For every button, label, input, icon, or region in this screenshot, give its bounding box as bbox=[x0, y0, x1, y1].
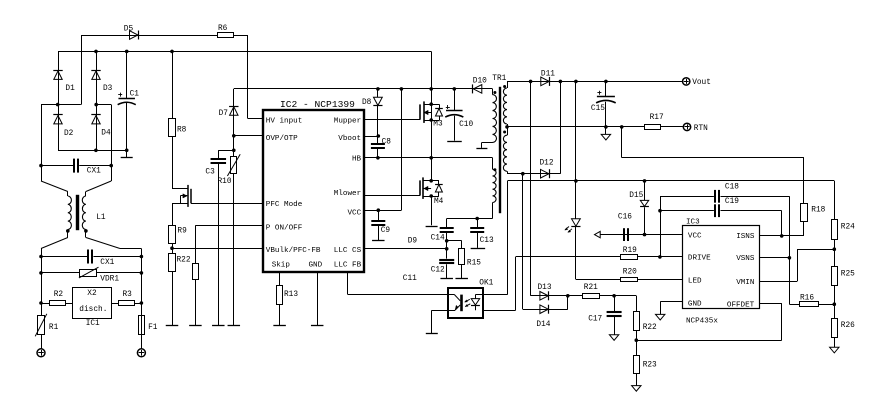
svg-text:disch.: disch. bbox=[79, 306, 107, 314]
svg-text:CX1: CX1 bbox=[87, 167, 101, 175]
svg-text:HV input: HV input bbox=[266, 118, 302, 126]
svg-text:R1: R1 bbox=[49, 324, 59, 332]
svg-text:IC3: IC3 bbox=[686, 218, 700, 226]
svg-text:C10: C10 bbox=[459, 121, 473, 129]
svg-text:R17: R17 bbox=[650, 114, 664, 122]
svg-text:M3: M3 bbox=[433, 121, 443, 129]
svg-text:R9: R9 bbox=[177, 227, 187, 235]
svg-text:C17: C17 bbox=[588, 315, 602, 323]
svg-text:R6: R6 bbox=[218, 25, 228, 33]
svg-text:C14: C14 bbox=[431, 235, 445, 243]
svg-text:R23: R23 bbox=[643, 362, 657, 370]
svg-text:R20: R20 bbox=[623, 269, 637, 277]
svg-text:GND: GND bbox=[309, 261, 323, 269]
svg-text:D8: D8 bbox=[362, 99, 372, 107]
svg-text:D5: D5 bbox=[124, 26, 134, 34]
svg-text:VCC: VCC bbox=[688, 232, 702, 240]
svg-text:R10: R10 bbox=[218, 178, 232, 186]
svg-text:D15: D15 bbox=[629, 192, 643, 200]
svg-text:R22: R22 bbox=[177, 257, 191, 265]
svg-text:R16: R16 bbox=[800, 294, 814, 302]
svg-text:C15: C15 bbox=[591, 105, 605, 113]
svg-text:C16: C16 bbox=[618, 213, 632, 221]
svg-text:OVP/OTP: OVP/OTP bbox=[266, 135, 298, 143]
svg-text:LLC FB: LLC FB bbox=[334, 261, 362, 269]
svg-text:M4: M4 bbox=[434, 198, 444, 206]
svg-text:R24: R24 bbox=[841, 223, 855, 231]
svg-text:DRIVE: DRIVE bbox=[688, 255, 711, 263]
svg-text:D10: D10 bbox=[473, 78, 487, 86]
svg-text:CX1: CX1 bbox=[100, 259, 114, 267]
svg-text:C1: C1 bbox=[130, 90, 140, 98]
svg-text:Vboot: Vboot bbox=[338, 135, 361, 143]
svg-text:LLC CS: LLC CS bbox=[334, 247, 362, 255]
svg-text:VSNS: VSNS bbox=[736, 255, 755, 263]
svg-text:C8: C8 bbox=[382, 138, 392, 146]
svg-text:NCP435x: NCP435x bbox=[686, 318, 718, 326]
svg-text:PFC Mode: PFC Mode bbox=[266, 201, 303, 209]
svg-text:IC1: IC1 bbox=[86, 320, 100, 328]
svg-text:R2: R2 bbox=[54, 291, 64, 299]
svg-text:R26: R26 bbox=[841, 322, 855, 330]
svg-text:X2: X2 bbox=[87, 290, 97, 298]
svg-text:IC2 - NCP1399: IC2 - NCP1399 bbox=[280, 99, 355, 110]
svg-text:C11: C11 bbox=[403, 275, 417, 283]
svg-text:R22: R22 bbox=[643, 324, 657, 332]
svg-text:C12: C12 bbox=[431, 266, 445, 274]
svg-text:OK1: OK1 bbox=[479, 279, 493, 287]
svg-text:C3: C3 bbox=[205, 169, 215, 177]
svg-text:D11: D11 bbox=[541, 70, 555, 78]
svg-text:R13: R13 bbox=[284, 291, 298, 299]
svg-text:RTN: RTN bbox=[694, 125, 708, 133]
svg-text:ISNS: ISNS bbox=[736, 233, 755, 241]
svg-text:VBulk/PFC-FB: VBulk/PFC-FB bbox=[266, 247, 321, 255]
svg-text:C13: C13 bbox=[480, 237, 494, 245]
svg-text:VMIN: VMIN bbox=[736, 279, 754, 287]
svg-text:D9: D9 bbox=[408, 238, 418, 246]
svg-text:D14: D14 bbox=[536, 321, 550, 329]
svg-text:R8: R8 bbox=[177, 126, 187, 134]
svg-text:R21: R21 bbox=[584, 284, 598, 292]
svg-text:P ON/OFF: P ON/OFF bbox=[266, 224, 303, 232]
svg-text:D2: D2 bbox=[64, 130, 74, 138]
svg-text:R25: R25 bbox=[841, 270, 855, 278]
svg-text:HB: HB bbox=[352, 155, 362, 163]
svg-text:GND: GND bbox=[688, 300, 702, 308]
svg-text:Vout: Vout bbox=[692, 79, 711, 87]
svg-text:VCC: VCC bbox=[348, 209, 362, 217]
svg-text:Mlower: Mlower bbox=[334, 190, 361, 198]
svg-text:C9: C9 bbox=[381, 227, 391, 235]
svg-text:F1: F1 bbox=[148, 324, 158, 332]
svg-text:Mupper: Mupper bbox=[334, 118, 361, 126]
svg-text:R15: R15 bbox=[467, 259, 481, 267]
svg-text:VDR1: VDR1 bbox=[100, 275, 119, 283]
svg-text:TR1: TR1 bbox=[492, 75, 506, 83]
svg-text:C19: C19 bbox=[725, 198, 739, 206]
svg-text:Skip: Skip bbox=[272, 261, 291, 269]
svg-text:D1: D1 bbox=[65, 85, 75, 93]
svg-text:R3: R3 bbox=[123, 291, 133, 299]
svg-text:D4: D4 bbox=[101, 129, 111, 137]
svg-text:D3: D3 bbox=[103, 85, 113, 93]
svg-text:LED: LED bbox=[688, 277, 702, 285]
svg-text:D12: D12 bbox=[540, 159, 554, 167]
svg-text:L1: L1 bbox=[96, 214, 106, 222]
svg-text:C18: C18 bbox=[725, 183, 739, 191]
svg-text:OFFDET: OFFDET bbox=[727, 302, 755, 310]
svg-text:D13: D13 bbox=[538, 284, 552, 292]
svg-text:D7: D7 bbox=[219, 110, 229, 118]
svg-text:R19: R19 bbox=[623, 247, 637, 255]
svg-text:R18: R18 bbox=[811, 206, 825, 214]
